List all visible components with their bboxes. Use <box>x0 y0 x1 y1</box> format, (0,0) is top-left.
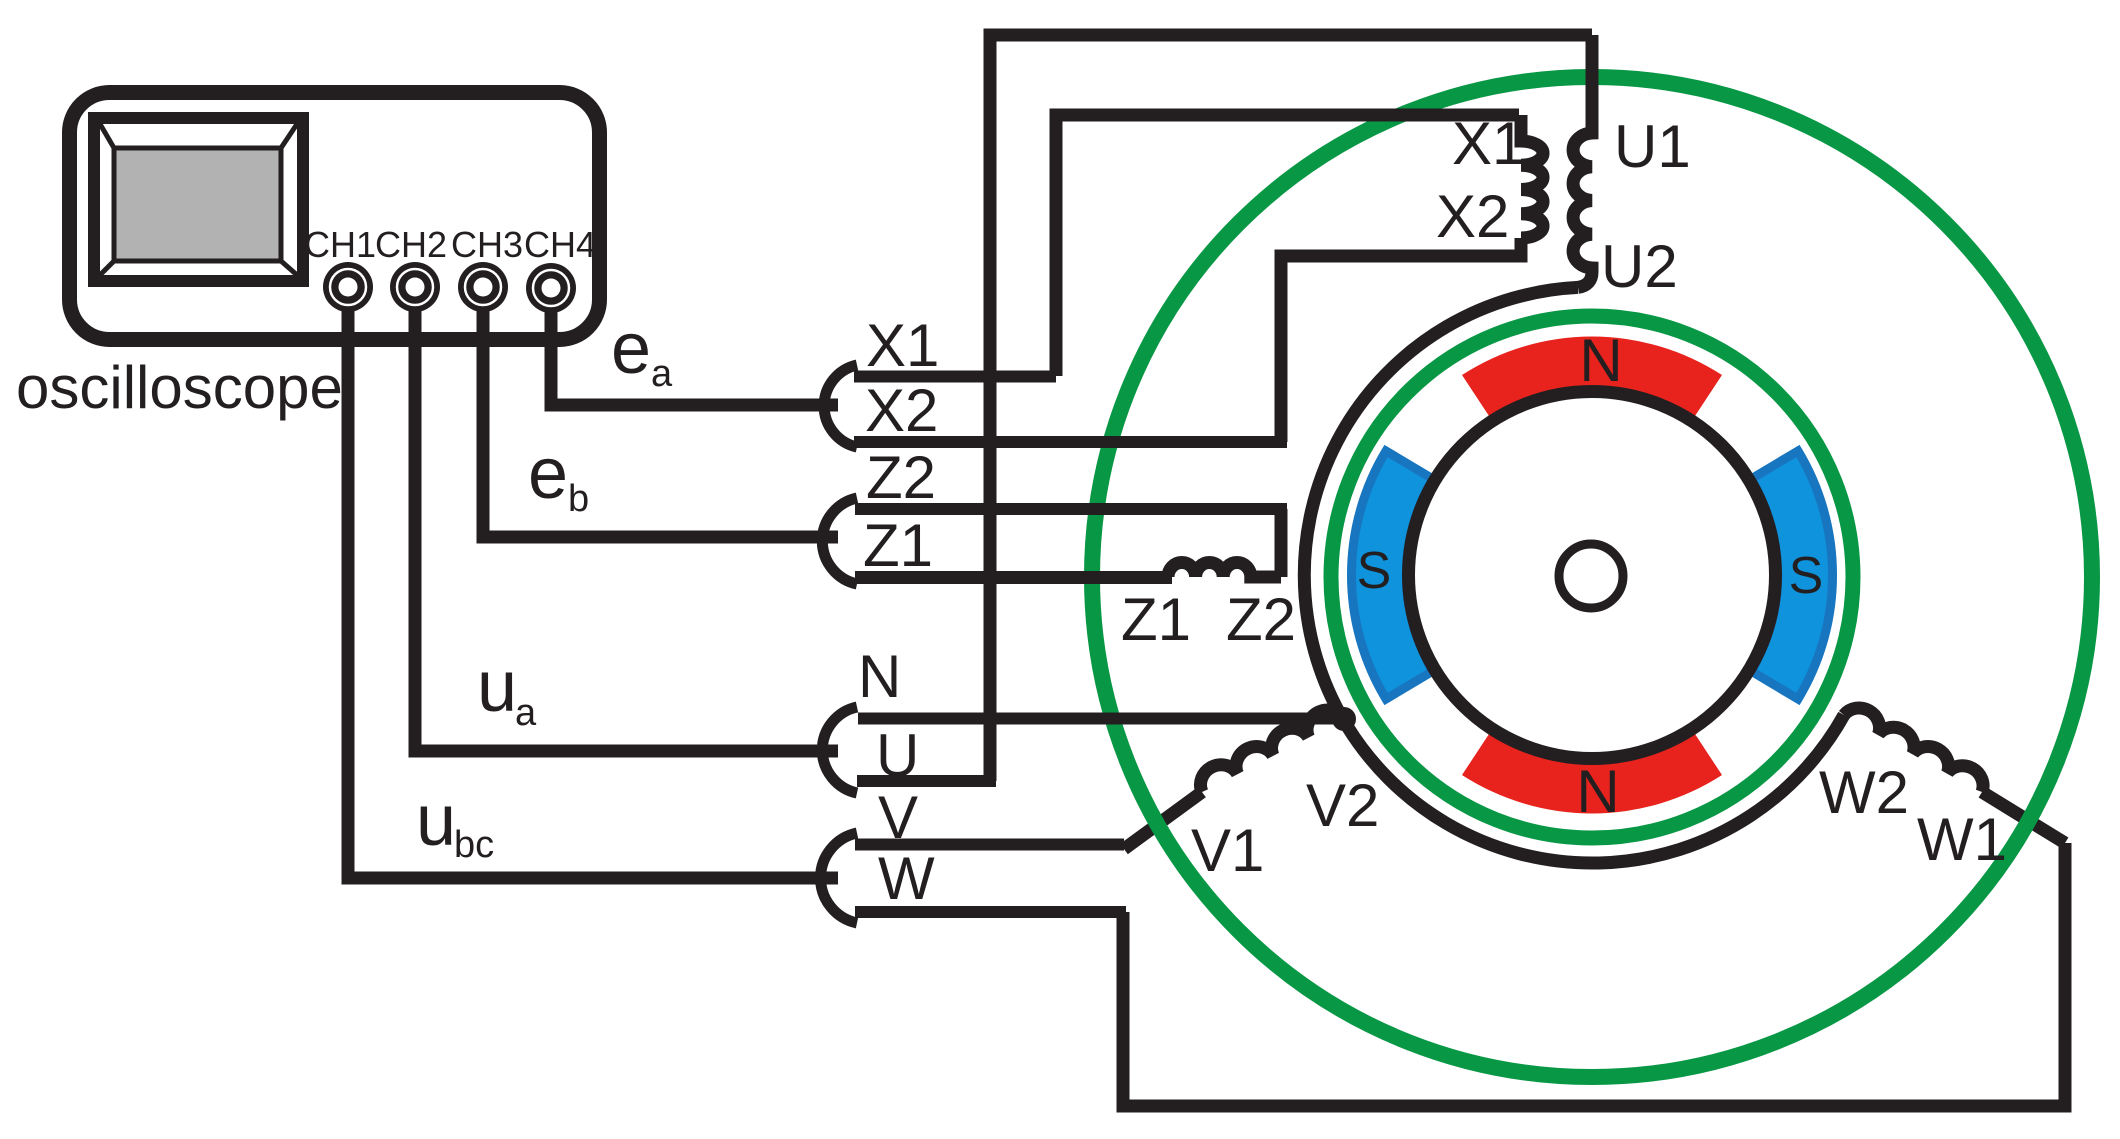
magnet N bottom (red) <box>1462 731 1722 813</box>
wire X1 bar to X1 coil <box>1056 115 1519 376</box>
svg-text:e: e <box>528 434 568 514</box>
svg-text:Z2: Z2 <box>866 444 936 511</box>
svg-text:S: S <box>1357 542 1392 600</box>
svg-text:N: N <box>1576 758 1619 825</box>
svg-text:e: e <box>611 309 651 389</box>
svg-text:W2: W2 <box>1819 759 1909 826</box>
bracket Z group <box>822 498 857 584</box>
BNC connector CH4 <box>526 263 576 313</box>
terminal bar U <box>857 775 996 787</box>
svg-text:CH2: CH2 <box>375 224 447 265</box>
svg-text:U: U <box>876 722 919 789</box>
svg-text:W1: W1 <box>1917 806 2007 873</box>
svg-text:X2: X2 <box>1436 183 1509 250</box>
coil W1-W2 (diagonal, bumps up-right) <box>1844 708 1983 792</box>
wire top rail U1 to U terminal <box>990 35 1592 781</box>
svg-text:X1: X1 <box>1452 110 1525 177</box>
oscilloscope screen frame <box>94 118 303 281</box>
coil Z1-Z2 (horizontal, bumps up) <box>1168 563 1281 578</box>
svg-text:U1: U1 <box>1614 113 1691 180</box>
coil X1-X2 (vertical, bumps right) <box>1521 115 1543 238</box>
coil V1-V2 (diagonal, bumps up-left) <box>1201 710 1344 792</box>
junction node V2 <box>1332 707 1356 731</box>
stator arc <box>1304 287 1844 863</box>
svg-text:Z1: Z1 <box>863 512 933 579</box>
rotor circle <box>1409 392 1776 759</box>
svg-text:CH3: CH3 <box>451 224 523 265</box>
wire X2 coil to X2 bar <box>1281 238 1521 442</box>
magnet N top (red) <box>1462 337 1722 419</box>
shaft circle O <box>1559 544 1623 608</box>
svg-text:a: a <box>651 353 673 395</box>
svg-text:N: N <box>1579 327 1622 394</box>
terminal bar X1 <box>854 371 1056 383</box>
terminal bar W <box>855 906 1126 918</box>
svg-text:b: b <box>568 478 589 520</box>
svg-text:oscilloscope: oscilloscope <box>16 354 343 421</box>
svg-text:S: S <box>1789 547 1824 605</box>
svg-text:Z1: Z1 <box>1121 586 1191 653</box>
screen grey <box>114 148 281 261</box>
svg-text:N: N <box>858 643 901 710</box>
svg-text:CH1: CH1 <box>304 224 376 265</box>
bracket VW group <box>821 833 857 923</box>
wire CH1 to u_bc <box>348 300 838 878</box>
terminal bar N <box>858 713 1344 725</box>
inner green circle <box>1331 316 1853 838</box>
wire W1 lead (under green) <box>1982 792 2065 843</box>
wire Z2 bar to Z2 coil <box>1275 509 1288 577</box>
outer green stator boundary circle <box>1092 77 2092 1077</box>
svg-text:V1: V1 <box>1191 817 1264 884</box>
oscilloscope body <box>70 93 600 340</box>
magnet S right (blue) <box>1751 451 1833 699</box>
bracket NU group <box>822 707 857 793</box>
wire CH4 to e_a <box>551 300 838 405</box>
terminal bar Z1 <box>855 571 1172 584</box>
svg-text:bc: bc <box>454 824 494 866</box>
terminal bar V <box>855 839 1124 851</box>
terminal bar X2 <box>854 436 1287 448</box>
wire CH3 to e_b <box>483 300 838 537</box>
svg-text:Z2: Z2 <box>1226 586 1296 653</box>
svg-text:u: u <box>477 647 517 727</box>
wire W terminal to W1 <box>1123 843 2065 1106</box>
BNC connector CH2 <box>390 262 440 312</box>
BNC connector CH1 <box>323 262 373 312</box>
svg-text:CH4: CH4 <box>524 224 596 265</box>
svg-text:X1: X1 <box>866 312 939 379</box>
svg-text:W: W <box>878 845 935 912</box>
coil U1-U2 (vertical, bumps left) <box>1573 35 1592 287</box>
terminal bar Z2 <box>855 503 1287 515</box>
BNC connector CH3 <box>458 262 508 312</box>
svg-text:u: u <box>416 781 456 861</box>
svg-text:U2: U2 <box>1601 233 1678 300</box>
screen bevel diagonals <box>100 124 297 275</box>
svg-text:X2: X2 <box>865 377 938 444</box>
svg-text:V2: V2 <box>1306 772 1379 839</box>
magnet S left (blue) <box>1351 451 1433 699</box>
svg-text:V: V <box>878 784 918 851</box>
bracket X group <box>824 365 857 447</box>
wire CH2 to u_a <box>415 300 838 751</box>
svg-text:a: a <box>515 692 537 734</box>
wire V1 lead (under green) <box>1124 792 1202 849</box>
